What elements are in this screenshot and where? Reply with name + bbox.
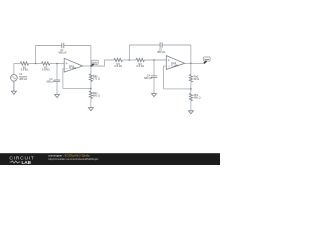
svg-text:680 Ω: 680 Ω	[93, 93, 100, 97]
svg-text:39 Ω: 39 Ω	[194, 77, 200, 81]
wire feedback2 horizontal	[164, 88, 191, 90]
svg-text:http//circuitlab.com/css3n2aze: http//circuitlab.com/css3n2azedd5a8rkq2x	[48, 157, 99, 161]
resistor R3	[114, 58, 123, 68]
wire Rb2 to ground	[190, 101, 192, 111]
svg-text:680 pF: 680 pF	[144, 76, 152, 80]
svg-text:aumsngear : 8C83fprbkb2-3jkd6p: aumsngear : 8C83fprbkb2-3jkd6p	[48, 154, 90, 158]
svg-text:6.8 kΩ: 6.8 kΩ	[136, 64, 144, 68]
node B junction	[129, 59, 131, 61]
wire node B up	[128, 45, 130, 60]
ground under Rb1	[88, 108, 93, 111]
wire Rb1 to ground	[90, 99, 92, 108]
svg-text:680 pF: 680 pF	[59, 51, 67, 55]
wire op-amp2 output	[185, 62, 191, 64]
op-amp OA1	[64, 58, 82, 72]
wire R3 to R4	[122, 59, 135, 61]
wire C1 to output branch	[64, 45, 91, 47]
wire C4 to ground	[153, 78, 155, 94]
CircuitLab logo	[9, 155, 34, 165]
wire feedback1 to inverting input	[63, 69, 64, 89]
wire R1 to R2	[29, 63, 42, 65]
wire output2 down to Ra2	[190, 63, 192, 74]
svg-text:455 Hz: 455 Hz	[19, 77, 28, 81]
wire down to output node	[90, 46, 92, 67]
node C2 tap	[56, 63, 58, 65]
svg-text:270 Ω: 270 Ω	[93, 77, 100, 81]
resistor R4	[136, 58, 145, 68]
svg-text:6.8 kΩ: 6.8 kΩ	[114, 64, 122, 68]
wire to C3	[129, 44, 160, 46]
node output2	[190, 63, 192, 65]
node C4 tap	[153, 59, 155, 61]
svg-text:680 pF: 680 pF	[47, 79, 55, 83]
wire C4 tap down	[153, 60, 155, 76]
wire source to R1	[14, 63, 20, 65]
watermark credit text	[48, 154, 99, 162]
wire C3 to output branch	[162, 44, 191, 46]
voltage source V1	[11, 72, 28, 81]
svg-text:TL084: TL084	[171, 64, 179, 68]
svg-text:6.8 kΩ: 6.8 kΩ	[42, 68, 50, 72]
resistor Ra1	[89, 74, 100, 82]
ground under Rb2	[188, 111, 193, 114]
svg-text:680 Ω: 680 Ω	[194, 96, 201, 100]
probe P1	[91, 60, 98, 66]
wire node A up	[35, 46, 37, 64]
op-amp OA2	[166, 56, 184, 70]
svg-text:LAB: LAB	[22, 160, 32, 165]
svg-text:6.8 kΩ: 6.8 kΩ	[21, 68, 29, 72]
svg-text:TL084: TL084	[69, 66, 77, 70]
wire output1 down to Ra1	[90, 66, 92, 74]
svg-text:680 pF: 680 pF	[157, 50, 165, 54]
wire feedback2 to inverting input	[164, 66, 167, 89]
ground under V1	[11, 81, 16, 94]
wire output1 right	[91, 60, 114, 66]
ground under C2	[55, 95, 60, 98]
wire feedback1 horizontal	[63, 87, 91, 89]
resistor Rb1	[89, 91, 100, 99]
wire C2 to ground	[56, 82, 58, 95]
resistor Ra2	[189, 75, 199, 83]
wire V1 to main line	[13, 64, 15, 75]
wire Ra1 to junction	[90, 82, 92, 91]
resistor R1	[20, 62, 29, 72]
capacitor C4	[144, 74, 157, 80]
node output1	[90, 65, 92, 67]
ground under C4	[152, 94, 157, 97]
watermark bar	[0, 153, 220, 165]
wire C2 tap down	[56, 64, 58, 80]
wire R4 to op-amp2	[144, 59, 166, 61]
probe P2	[204, 57, 211, 64]
wire down to output node 2	[190, 45, 192, 63]
capacitor C1	[59, 43, 67, 55]
capacitor C3	[157, 42, 165, 54]
wire output2 stub	[191, 62, 204, 64]
wire to C1	[36, 45, 62, 47]
resistor Rb2	[189, 93, 200, 101]
node feedback2	[190, 88, 192, 90]
resistor R2	[42, 62, 51, 72]
node A junction	[35, 63, 37, 65]
wire Ra2 to junction	[190, 82, 192, 93]
wire op-amp1 output	[83, 65, 91, 67]
capacitor C2	[47, 77, 61, 83]
wire R2 to op-amp	[50, 63, 64, 65]
node feedback1	[90, 88, 92, 90]
